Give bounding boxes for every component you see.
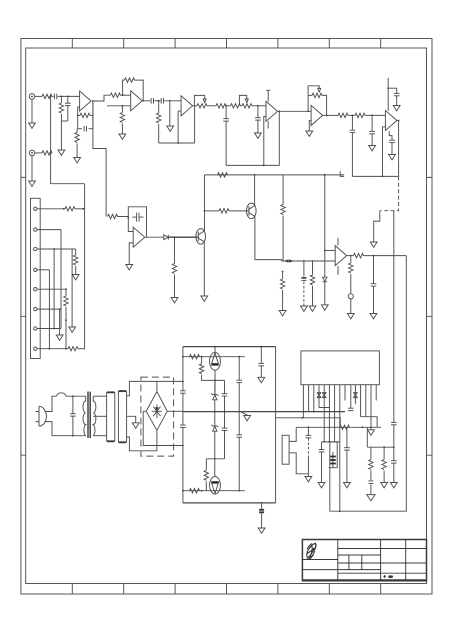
left long drop to bottom rail (329, 442, 331, 511)
resistor R19 matrix (75, 249, 77, 255)
secondary bottom tap (93, 435, 106, 437)
wire R10 to node (226, 105, 231, 107)
Q1 collector riser (204, 175, 206, 231)
node between caps (158, 100, 160, 102)
node zobel a (383, 446, 385, 448)
ground under J2 (31, 156, 33, 181)
node row8 c (65, 348, 67, 350)
wire CN2 to bridge bottom (127, 437, 157, 451)
pin 13 (365, 385, 367, 417)
power transistor Q4 (210, 477, 221, 495)
pin 9 (344, 385, 346, 401)
tiny cert mark (383, 575, 393, 578)
wire loop to U7 plus (128, 218, 133, 232)
resistor R13 (355, 113, 365, 117)
node pin3 rail (313, 411, 315, 413)
op-amp U2 (131, 91, 143, 111)
node row6 (59, 308, 61, 310)
Q3 collector (214, 347, 216, 353)
input jack J2 (29, 150, 35, 156)
elco feed row (322, 441, 340, 443)
wire R3 to bus (51, 152, 52, 154)
cap C25 left leg (346, 427, 348, 447)
diode D1 (164, 235, 169, 240)
VR3 wiper bracket (308, 86, 319, 96)
branch to IC horizontal (276, 417, 303, 419)
wire CN2 center tap ground (127, 416, 136, 423)
resistor R22 to ground (282, 271, 284, 273)
node bridge plus (182, 381, 184, 383)
pin 14 (370, 385, 372, 428)
pin 5 (34, 288, 37, 291)
pin 7 (334, 385, 336, 442)
small cap bars R30 (368, 480, 373, 482)
border zone ticks right (427, 177, 433, 455)
ground rail mid (183, 411, 345, 413)
ground matrix d (69, 327, 76, 332)
bridge left vertex wire (143, 411, 183, 445)
node phono out (174, 236, 176, 238)
dashed wire to output connector (380, 176, 399, 210)
bridge rectifier BR1 (146, 392, 167, 431)
series R C to ground from out node (350, 256, 352, 263)
stub zobel left (366, 446, 368, 448)
resistor R1 (42, 94, 52, 98)
wire input bus down (51, 96, 85, 183)
connector block CN2 (118, 391, 126, 443)
node U2 out (142, 100, 144, 102)
border zone ticks bottom (72, 584, 380, 595)
node Q4 base (201, 490, 203, 492)
resistor R10 (216, 104, 226, 108)
cap C26 series (391, 422, 397, 424)
node row1 rail (82, 208, 84, 210)
title col divider 3 (405, 540, 407, 581)
capacitor C2 vertical (67, 96, 69, 103)
node zobel b (393, 446, 395, 448)
ground under J1 (31, 99, 33, 123)
bridge dashed outline (141, 377, 174, 456)
U7 feedback loop (128, 207, 146, 218)
ground under C11 (389, 155, 396, 160)
node elco mid (329, 441, 331, 443)
row1 wire (37, 208, 65, 210)
ground under C14 (347, 314, 354, 319)
node matrix c (65, 319, 67, 321)
wire R12 to R13 (348, 114, 355, 116)
pin 6 (328, 385, 330, 408)
filter cap C17 (180, 391, 186, 393)
wire VR2 to U4 (252, 105, 266, 107)
row3 wire (37, 248, 76, 250)
ground center tap (132, 423, 139, 428)
pin 4 with diode (318, 385, 320, 408)
secondary mid tap (93, 415, 106, 417)
zener D4 (214, 412, 216, 426)
brand logo scribble (306, 543, 316, 559)
node after R1 (50, 96, 52, 98)
node row8 a (49, 348, 51, 350)
wire VR1 to R10 (207, 105, 216, 107)
cap C20 rail (238, 357, 240, 380)
title row line f (338, 572, 427, 574)
node after C5 (169, 100, 171, 102)
resistor R6 (110, 93, 120, 97)
row7 wire (37, 328, 61, 330)
title block outer (302, 540, 426, 581)
wire R1 to C1 (52, 95, 54, 97)
resistor R20 matrix vertical (65, 289, 67, 296)
capacitor C12 feedback (133, 213, 144, 222)
wire U7 out (145, 236, 164, 238)
pin 1 (302, 385, 304, 418)
Q3 base row (183, 356, 245, 358)
node fb left (77, 115, 79, 117)
capacitor C5 series (161, 98, 163, 104)
node Q3 base (201, 356, 203, 358)
transistor Q1 (196, 229, 206, 245)
pin 10 with cap to rail (350, 385, 352, 408)
ground under C27 (390, 483, 397, 488)
ground under R15 (171, 298, 178, 303)
node U9 plus (324, 250, 326, 252)
row4 wire (37, 269, 49, 271)
ground under C9 (369, 146, 376, 151)
node row3 e (53, 248, 55, 250)
bracket cap C30 (307, 427, 309, 435)
U6 lower decoupling cap C11 (389, 131, 392, 140)
wire U9 out (347, 255, 354, 257)
transistor Q2 (247, 203, 257, 219)
decoupling cap C21 (260, 347, 262, 364)
ground under R31 (381, 483, 388, 488)
row8 wire (37, 348, 68, 350)
resistor R8 to ground (121, 106, 123, 113)
capacitor C3 feedback (78, 128, 82, 130)
resistor R28 base Q4 (190, 489, 200, 493)
op-amp U6 (385, 111, 397, 131)
title col divider 1 (337, 540, 339, 581)
ground under D2 (321, 305, 328, 310)
resistor R23 to ground (312, 261, 314, 275)
node mid q (214, 411, 216, 413)
node U1 out (92, 100, 94, 102)
ground under C13 (301, 306, 308, 311)
Q3 emitter (214, 370, 216, 394)
matrix vertical a (48, 270, 50, 349)
node U5 plus (307, 110, 309, 112)
resistor R26 bias (201, 357, 203, 364)
potentiometer VR2 (242, 104, 252, 108)
node U6 supply (387, 87, 389, 89)
U2 feedback loop top (123, 80, 125, 95)
wire Q2 base row (205, 210, 220, 212)
resistor R21 row8 (68, 347, 78, 351)
ground U5 minus (306, 131, 313, 136)
plug top lead (45, 396, 57, 411)
zener D3 (211, 393, 218, 399)
resistor R11 (231, 104, 241, 108)
node pin8 bottom (339, 510, 341, 512)
node C20 top (238, 356, 240, 358)
capacitor C16 across mains (72, 396, 74, 413)
row5 wire (37, 288, 66, 290)
node U7 in (127, 217, 129, 219)
node fb rail (177, 142, 179, 144)
resistor R27 drive (205, 459, 207, 471)
decoupling cap C10 (388, 88, 397, 93)
ground bracket (305, 477, 312, 482)
left supply vertical with filter caps (182, 347, 184, 391)
title col divider 2 (380, 540, 382, 581)
drive row wire (206, 458, 224, 460)
op-amp U7 (133, 227, 145, 247)
title row line c (302, 559, 337, 561)
Q2 collector riser (254, 175, 256, 206)
pin 3 (313, 385, 315, 412)
earth rail bottom (183, 502, 276, 504)
wire fb left to U1 inverting input (78, 106, 80, 108)
node base left Q4 (182, 490, 184, 492)
wire J2 to R3 (35, 152, 42, 154)
node B (67, 96, 69, 98)
capacitor C8 shunt (351, 115, 353, 130)
long vertical from dashed output (393, 211, 395, 423)
U9 supply stub bottom (337, 266, 339, 275)
wire loop right to U7 out (146, 218, 148, 237)
wire joining R2 C2 (61, 120, 67, 122)
node U2 plus (122, 94, 124, 96)
U4 inverting input down (264, 116, 266, 165)
op-amp U4 (266, 101, 278, 121)
wire C5 to U3 (164, 100, 181, 102)
ground under R2C2 (60, 121, 62, 150)
node Q1 base row (204, 210, 206, 212)
title row line b (338, 554, 381, 556)
ground under C21 (258, 377, 265, 382)
ground under C7 (255, 133, 262, 138)
node filt (352, 115, 354, 117)
ground under R22 (279, 311, 286, 316)
node mid c19 (224, 411, 226, 413)
transformer T1 primary (83, 396, 86, 436)
U7 minus to ground (129, 243, 133, 265)
title row line a (338, 548, 427, 550)
headphone input line (282, 260, 336, 262)
node J2 bus (50, 152, 52, 154)
transformer T1 core (87, 392, 89, 438)
node bracket cap (308, 426, 310, 428)
wire U6 out down (397, 121, 399, 177)
op-amp U5 (311, 105, 323, 125)
node U9 out (350, 255, 352, 257)
node base left (182, 356, 184, 358)
node row1 (63, 208, 65, 210)
node tone (225, 105, 227, 107)
wire D1 to Q1 base (168, 236, 198, 238)
wire R9 ground rail (159, 142, 195, 144)
filter cap C18 (180, 425, 186, 427)
bias cap C19 (224, 380, 226, 393)
pin 1 (34, 207, 37, 210)
pin6 jog down (319, 408, 329, 442)
wire U1 output down to phono send (93, 101, 106, 217)
Q4 base row (183, 490, 245, 492)
node row gnd (370, 426, 372, 428)
supply feed right vertical (275, 347, 277, 503)
node U5 out (326, 115, 328, 117)
resistor R3 (42, 151, 52, 155)
ground under R19 (72, 275, 79, 280)
pin 7 (34, 327, 37, 330)
node Q4 drive (214, 458, 216, 460)
op-amp U3 (181, 96, 193, 116)
title sub divider 2 (361, 555, 363, 570)
wire U5 out (323, 114, 338, 116)
ground under R5 (74, 158, 81, 163)
wire U4 out to U5 (278, 110, 312, 112)
U6 supply riser (387, 78, 389, 111)
node row7 (53, 328, 55, 330)
title sub divider 1 (348, 555, 350, 570)
ground row (370, 427, 372, 430)
pin 11 with diode (354, 385, 356, 404)
resistor R29 (340, 425, 350, 429)
zobel row horizontal (367, 446, 394, 448)
Q4 collector riser (214, 459, 216, 477)
pin 15 (375, 385, 377, 401)
op-amp U1 (80, 91, 92, 111)
ground under C25 (344, 483, 351, 488)
node U4 out (278, 110, 280, 112)
wire J1 to R1 (35, 95, 42, 97)
cap C23 (238, 412, 240, 435)
input jack J1 (29, 94, 35, 100)
wire U1 feedback down (92, 101, 94, 115)
electrolytic C14 (348, 294, 353, 299)
ground under C10 (393, 106, 400, 111)
ground output (370, 242, 377, 247)
border zone ticks left (21, 177, 26, 455)
pin 8 (34, 347, 37, 350)
U2 lower input wire (107, 105, 131, 107)
wire R6 to U2 (120, 94, 130, 96)
bridge top vertex wire (156, 382, 158, 392)
Q1 emitter down (203, 242, 205, 296)
resistor R9 shunt (158, 101, 160, 113)
capacitor C1 (54, 94, 56, 100)
pin 5 with diode (323, 385, 325, 442)
ground U7 minus (126, 265, 133, 270)
RC row horizontal (296, 426, 381, 428)
rail right drop with resistor (282, 175, 284, 205)
row6 wire (37, 308, 61, 310)
node rail u9 supply (324, 174, 326, 176)
matrix vertical d (71, 249, 73, 327)
wire hook to ground (374, 211, 380, 242)
wire to U9 plus (325, 250, 335, 252)
resistor R7 feedback (125, 78, 135, 82)
node C23 bottom (238, 490, 240, 492)
resistor R2 vertical (60, 96, 62, 103)
switch block J3 (31, 198, 41, 358)
pin 3 (34, 247, 37, 250)
sheet inner border (26, 48, 427, 584)
resistor R5 to ground (76, 129, 78, 133)
node U6 in (371, 115, 373, 117)
zobel leg down (366, 427, 368, 447)
pin 8 (339, 385, 341, 512)
wire R14 to U7 loop (118, 217, 129, 218)
pin 6 (34, 307, 37, 310)
border zone ticks top (72, 39, 380, 49)
capacitor C4 series (151, 98, 153, 104)
pin 4 (34, 268, 37, 271)
capacitor C15 to ground (373, 256, 375, 284)
phono supply rail (205, 174, 345, 176)
ground C5 shunt (169, 101, 171, 126)
connector arrows on line (284, 259, 295, 262)
wire U3 out (193, 105, 197, 107)
capacitor C9 shunt (371, 115, 373, 131)
title row line d (302, 569, 380, 571)
wire R13 to U6 (365, 114, 385, 116)
pin 12 (360, 385, 362, 417)
electrolytic C29 (330, 452, 336, 468)
node rail fb (382, 176, 384, 178)
node hp a (303, 260, 305, 262)
node earth (261, 502, 263, 504)
U4 supply stub down (267, 121, 269, 128)
fuse F1 (57, 393, 67, 396)
node U4 in (257, 105, 259, 107)
pot VR3 feedback (308, 94, 312, 96)
sheet outer border (21, 39, 432, 595)
IC U8 power amp (301, 351, 380, 385)
ground stub on mid rail (241, 412, 248, 416)
elco bracket (329, 442, 338, 468)
node mid c20 (238, 411, 240, 413)
node A (61, 96, 63, 98)
supply drop to U9 (324, 175, 326, 251)
heatsink bracket outline (289, 427, 308, 473)
title block (302, 540, 426, 581)
ground row6 (59, 309, 61, 335)
bottom rail U6 (352, 175, 398, 177)
row2 wire (37, 229, 61, 231)
node branch (301, 417, 303, 419)
bridge right vertex wire (167, 410, 183, 412)
capacitor C7 shunt (257, 106, 259, 118)
title block bottom heavy edge (302, 579, 426, 581)
cap C28 leg (321, 442, 323, 449)
U9 supply stub top (337, 238, 339, 246)
resistor R24 (354, 253, 364, 257)
row 418 elbow (303, 418, 340, 428)
power transistor Q3 (210, 352, 221, 370)
wire U1 out to R6 (93, 95, 111, 101)
secondary top tap (93, 395, 106, 397)
node Q3 emitter (214, 380, 216, 382)
U5 minus to ground (309, 121, 311, 131)
node rail q3 (214, 346, 216, 348)
node elco left (323, 441, 325, 443)
wire C4 to C5 (154, 100, 160, 102)
wire R11 to VR2 (241, 105, 243, 107)
wire R17 to Q2 (229, 210, 249, 212)
AC plug P1 (36, 406, 47, 426)
big ground R30 (367, 495, 375, 501)
